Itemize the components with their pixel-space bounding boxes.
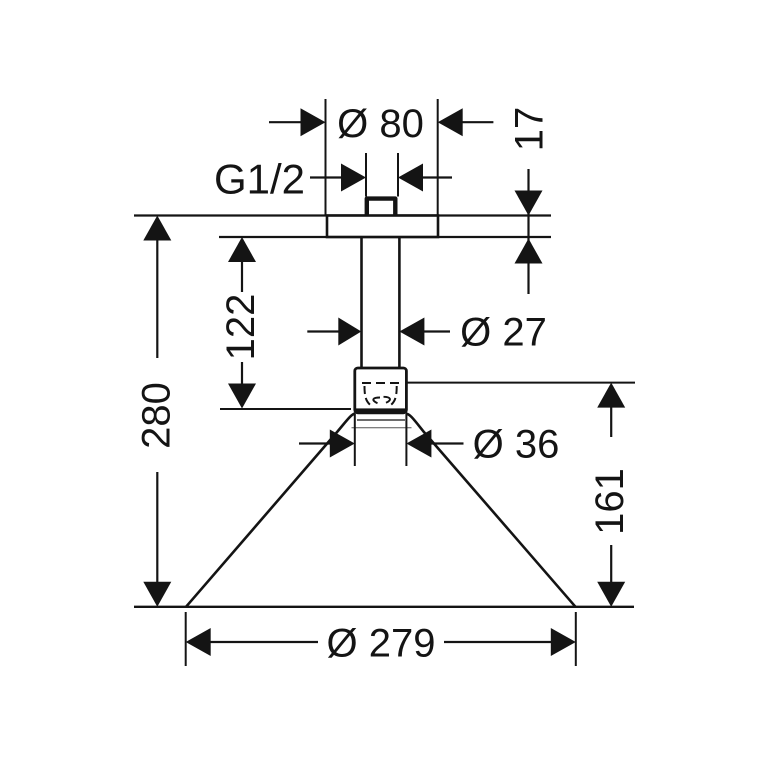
svg-text:Ø 279: Ø 279: [327, 622, 436, 666]
cone rim lines: [352, 420, 412, 428]
flange bottom reference line: [219, 236, 551, 238]
G1/2 thread nipple: [367, 199, 396, 216]
cone body: [186, 413, 576, 607]
dimension 161: [406, 383, 635, 607]
baseline: [134, 606, 634, 608]
dimension Ø27: [307, 311, 547, 355]
dimension Ø36: [299, 414, 559, 467]
svg-text:161: 161: [588, 468, 632, 535]
connector housing: [355, 368, 407, 413]
dimension 17: [508, 107, 552, 294]
dimension 122: [219, 237, 351, 409]
ceiling line: [134, 214, 551, 216]
dimension G1/2: [214, 153, 452, 202]
dimension Ø279: [186, 612, 576, 666]
internal dashed waterway: [362, 383, 404, 407]
svg-text:17: 17: [508, 107, 552, 152]
supply pipe: [362, 237, 400, 368]
svg-text:Ø 36: Ø 36: [473, 423, 560, 467]
svg-text:280: 280: [135, 382, 179, 449]
dimension Ø80: [269, 99, 493, 216]
dimension 280: [135, 216, 179, 607]
aerator band: [355, 408, 407, 413]
ceiling flange plate: [327, 216, 438, 238]
svg-text:122: 122: [219, 294, 263, 361]
svg-text:Ø 27: Ø 27: [460, 311, 547, 355]
svg-text:Ø 80: Ø 80: [337, 102, 424, 146]
svg-text:G1/2: G1/2: [214, 155, 305, 202]
